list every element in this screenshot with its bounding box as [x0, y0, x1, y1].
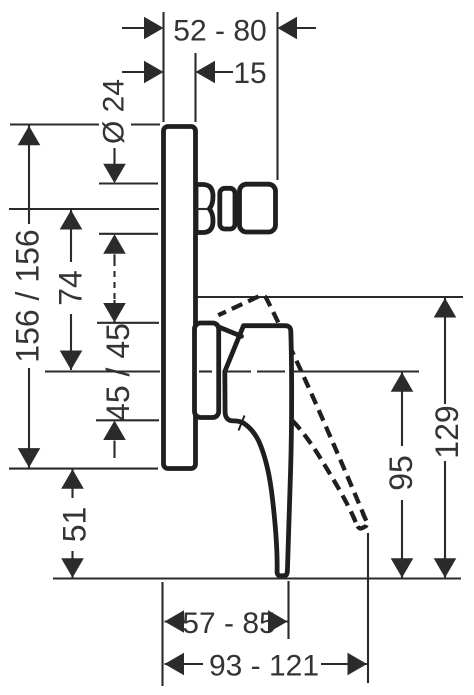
- arrow 129 bottom: [434, 558, 457, 578]
- extension line left vertical x=163.5 (wall plane): [162, 12, 164, 122]
- arrow 15 left: [144, 61, 164, 84]
- arrow 45/45 bottom: [103, 421, 126, 441]
- arrow Ø24 top: [103, 164, 126, 184]
- arrow 15 right: [196, 61, 216, 84]
- label 45 / 45 rotated: [100, 323, 136, 421]
- extension line plate top y=124.5: [10, 123, 160, 125]
- dashed lever rotated position: [218, 293, 372, 545]
- label 95 rotated: [383, 446, 419, 500]
- svg-text:57 - 85: 57 - 85: [182, 607, 275, 640]
- handle sleeve: [195, 323, 219, 418]
- extension line knob bottom y=233.8: [99, 233, 158, 235]
- arrow 93-121 right: [348, 653, 368, 676]
- extension line dashed lever tip x=368: [367, 533, 369, 683]
- extension line bottom y=578.5: [53, 577, 461, 579]
- label 156 / 156 rotated: [10, 224, 46, 368]
- tail below 45/45 bottom arrow: [113, 441, 115, 459]
- valve ring: [220, 188, 235, 229]
- label 52 - 80: [173, 15, 266, 48]
- arrow 93-121 left: [165, 653, 185, 676]
- dimension 74 line x=71: [70, 210, 72, 370]
- dimension 129 line x=445: [444, 298, 446, 578]
- svg-text:156 / 156: 156 / 156: [10, 229, 46, 362]
- centerline top valve y=209: [9, 208, 208, 210]
- handle back edge line: [220, 328, 242, 337]
- arrow 57-85 right: [268, 610, 288, 633]
- extension line sleeve top y=322.8: [97, 322, 159, 324]
- label Ø 24 rotated: [98, 79, 131, 144]
- dimension 57-85 line y=621.5: [165, 620, 288, 622]
- leader between Ø24 and 45/45 arrows x=114.5: [113, 254, 115, 322]
- arrow 156/156 bottom: [18, 448, 41, 468]
- extension line plate bottom y=468.6: [9, 468, 158, 470]
- svg-text:74: 74: [53, 270, 89, 306]
- dimension 52-80 line tails y=28: [122, 27, 316, 29]
- svg-text:129: 129: [429, 405, 465, 458]
- label 15: [233, 57, 266, 90]
- svg-text:15: 15: [233, 57, 266, 90]
- arrow 51 top: [61, 469, 84, 489]
- valve cap: [240, 184, 276, 232]
- extension line knob top y=183.5: [99, 182, 158, 184]
- extension line sleeve bottom y=420.3: [96, 419, 159, 421]
- svg-text:Ø 24: Ø 24: [98, 79, 131, 144]
- arrow 74 bottom: [60, 351, 83, 371]
- escutcheon plate: [164, 127, 196, 469]
- dimension 15 line tails y=72: [122, 71, 233, 73]
- extension line knob end x=277.5: [276, 12, 278, 180]
- extension line bottom-left x=162.5: [161, 582, 163, 686]
- dimension 95 line x=402: [401, 373, 403, 578]
- arrow 52-80 right: [278, 17, 298, 40]
- arrow 57-85 left: [165, 610, 185, 633]
- lever handle body: [225, 326, 292, 576]
- extension line plate front x=195.5: [194, 53, 196, 122]
- svg-text:95: 95: [383, 455, 419, 491]
- extension line handle up top y=297: [197, 296, 463, 298]
- dimension 93-121 line y=664: [165, 663, 368, 665]
- arrow 95 top: [391, 372, 414, 392]
- tick mark on lever curve: [239, 416, 245, 431]
- extension line lever tip x=288.5: [287, 581, 289, 639]
- label 74 rotated: [53, 262, 89, 314]
- arrow 51 bottom: [61, 558, 84, 578]
- dimension Ø24 upper tail x=114.5: [113, 148, 115, 164]
- svg-text:51: 51: [57, 507, 93, 543]
- svg-text:93 - 121: 93 - 121: [209, 650, 319, 683]
- valve dome: [196, 185, 213, 233]
- arrow 129 top: [434, 298, 457, 318]
- svg-text:52 - 80: 52 - 80: [173, 15, 266, 48]
- arrow 156/156 top: [18, 126, 41, 146]
- arrow Ø24 bottom: [103, 234, 126, 254]
- dimension 156/156 line x=29: [28, 126, 30, 468]
- centerline handle y=371.5: [45, 370, 419, 372]
- label 93 - 121: [203, 648, 321, 683]
- label 57 - 85: [182, 606, 275, 640]
- label 51 rotated: [57, 498, 93, 551]
- dimension 51 line x=72.5: [71, 469, 73, 577]
- arrow 95 bottom: [391, 558, 414, 578]
- arrow 52-80 left: [144, 17, 164, 40]
- arrow 74 top: [60, 210, 83, 230]
- arrow 45/45 top: [103, 303, 126, 323]
- label 129 rotated: [429, 404, 465, 461]
